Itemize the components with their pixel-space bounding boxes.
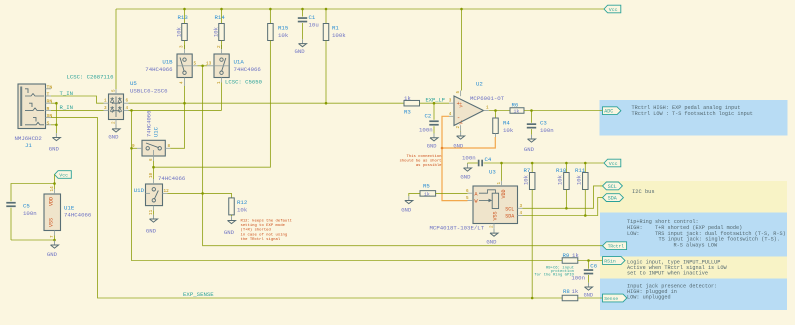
junction op-amp V+ xyxy=(460,8,463,11)
svg-text:10k: 10k xyxy=(503,127,514,134)
svg-text:GND: GND xyxy=(401,207,412,214)
wire T_IN xyxy=(51,96,104,103)
svg-text:1: 1 xyxy=(486,106,489,111)
svg-text:10k: 10k xyxy=(523,174,530,185)
svg-text:5: 5 xyxy=(194,62,197,67)
wire U1B pin4 down xyxy=(184,86,186,103)
svg-text:J1: J1 xyxy=(25,142,32,149)
wire R10 to SCL xyxy=(565,190,567,209)
power flag Vcc mid xyxy=(604,159,621,167)
junction C2 top xyxy=(433,102,436,105)
resistor R3 xyxy=(404,100,420,106)
op-amp U2 MCP6001-OT xyxy=(454,96,484,126)
svg-text:U2: U2 xyxy=(476,80,483,87)
U5 pin 1 xyxy=(104,102,109,104)
J1 pin SN xyxy=(46,117,52,119)
note box Sense (blue) xyxy=(600,279,787,311)
U2 pin 2 V- xyxy=(460,125,462,131)
flag Sense xyxy=(603,294,627,302)
svg-text:1k: 1k xyxy=(572,288,579,295)
svg-text:5: 5 xyxy=(112,89,117,92)
svg-text:Vcc: Vcc xyxy=(59,173,68,179)
capacitor C5 xyxy=(6,202,15,204)
svg-text:GND: GND xyxy=(47,251,58,258)
wire R_IN to U1A xyxy=(129,109,222,111)
wire control U1B5-U1A13 xyxy=(198,65,208,67)
svg-text:EXP_SENSE: EXP_SENSE xyxy=(183,291,214,298)
svg-text:3: 3 xyxy=(104,106,107,111)
svg-text:R11: R11 xyxy=(575,167,586,174)
svg-text:R1: R1 xyxy=(332,25,339,32)
wire V+ to rail xyxy=(461,9,463,91)
svg-text:TRctrl LOW : T-S footswitch lo: TRctrl LOW : T-S footswitch logic input xyxy=(632,111,753,117)
flag TRctrl xyxy=(603,242,627,250)
wire U1C6 to node xyxy=(153,161,155,167)
J1 pin T xyxy=(46,95,52,97)
U1D pin 11 xyxy=(153,206,155,211)
power flag Vcc U1E xyxy=(55,171,72,179)
junction R11 top xyxy=(584,162,587,165)
junction C6 xyxy=(587,259,590,262)
junction RN xyxy=(55,102,58,105)
resistor R9 xyxy=(562,258,578,264)
analog switch U1A 74HC4066 xyxy=(214,54,229,78)
capacitor C1 xyxy=(302,9,304,17)
wire opamp out xyxy=(489,110,510,112)
svg-text:6: 6 xyxy=(126,99,129,104)
wire control down to TRctrl xyxy=(203,66,603,246)
junction R7 Sense xyxy=(531,297,534,300)
svg-text:SCL: SCL xyxy=(608,184,617,190)
svg-text:3: 3 xyxy=(520,204,523,209)
svg-text:C3: C3 xyxy=(540,120,547,127)
resistor R4 xyxy=(495,111,497,119)
svg-text:VSS: VSS xyxy=(49,218,55,227)
svg-text:set to INPUT when inactive: set to INPUT when inactive xyxy=(627,271,708,277)
wire R9 to RSin flag xyxy=(578,260,603,262)
svg-text:2: 2 xyxy=(456,126,461,129)
svg-text:TN: TN xyxy=(47,84,53,90)
IC U5 USBLC6-2SC6 xyxy=(109,94,124,120)
U1C pin 9 xyxy=(137,147,142,149)
svg-text:10k: 10k xyxy=(576,174,583,185)
J1 pin R xyxy=(46,109,52,111)
svg-text:NMJ6HCD2: NMJ6HCD2 xyxy=(15,135,43,142)
U5 pin 3 xyxy=(104,109,109,111)
svg-text:1: 1 xyxy=(104,99,107,104)
U1B pin 4 xyxy=(184,78,186,87)
wire U1D12 to R12 xyxy=(168,193,232,198)
junction C3 top xyxy=(530,109,533,112)
resistor R1 xyxy=(325,9,327,24)
svg-text:R5: R5 xyxy=(423,182,430,189)
wire U5 VBUS to rail xyxy=(115,9,117,89)
capacitor C6 xyxy=(588,261,590,269)
svg-text:S: S xyxy=(47,120,50,126)
svg-text:1: 1 xyxy=(497,182,502,185)
svg-text:LCSC: C2687116: LCSC: C2687116 xyxy=(67,74,114,81)
ground U3 xyxy=(493,229,495,233)
svg-text:U5: U5 xyxy=(130,80,137,87)
J1 pin RN xyxy=(46,102,52,104)
svg-text:R15: R15 xyxy=(278,25,289,32)
U5 pin 4 xyxy=(124,109,129,111)
ground U1D xyxy=(153,211,155,215)
junction U1D pin12 xyxy=(201,192,204,195)
svg-text:4: 4 xyxy=(449,112,452,117)
junction feedback orange xyxy=(441,147,444,150)
svg-text:R: R xyxy=(47,106,50,112)
wire R11 to SDA xyxy=(584,190,586,216)
svg-text:R12: R12 xyxy=(237,199,248,206)
svg-text:RSin: RSin xyxy=(604,258,616,264)
svg-text:(T+R) shorted: (T+R) shorted xyxy=(241,228,271,233)
svg-text:2: 2 xyxy=(489,225,494,228)
svg-text:U1C: U1C xyxy=(153,126,160,137)
svg-text:U1D: U1D xyxy=(134,187,145,194)
svg-text:4: 4 xyxy=(520,211,523,216)
resistor R10 xyxy=(565,163,567,173)
svg-text:setting to EXP mode: setting to EXP mode xyxy=(241,223,286,228)
svg-text:MCP6001-OT: MCP6001-OT xyxy=(470,95,505,102)
svg-text:R_IN: R_IN xyxy=(60,104,73,111)
svg-text:R7: R7 xyxy=(524,167,531,174)
svg-text:10k: 10k xyxy=(176,26,183,37)
analog switch U1C 74HC4066 xyxy=(142,140,165,156)
ground U1E xyxy=(54,241,56,245)
svg-text:W: W xyxy=(475,199,478,205)
junction control node xyxy=(152,166,155,169)
svg-text:Vcc: Vcc xyxy=(609,161,618,167)
svg-text:R14: R14 xyxy=(215,14,226,21)
resistor R12 xyxy=(229,198,235,215)
svg-text:10k: 10k xyxy=(278,32,289,39)
U1C pin 6 xyxy=(153,156,155,161)
svg-text:VDD: VDD xyxy=(49,197,55,206)
junction R1 top xyxy=(325,8,328,11)
wire R13 to U1B xyxy=(184,45,186,49)
svg-text:1k: 1k xyxy=(572,252,579,259)
wire Vcc to U1E xyxy=(54,175,56,190)
resistor R11 xyxy=(584,163,586,173)
wire R5 left to GND xyxy=(409,193,420,196)
junction R10 top xyxy=(565,162,568,165)
svg-text:R-S always LOW: R-S always LOW xyxy=(674,242,718,248)
junction R10 SCL xyxy=(565,207,568,210)
svg-text:3: 3 xyxy=(179,45,184,48)
ground U2 xyxy=(460,130,462,133)
note box I2C (yellow) xyxy=(600,181,787,213)
svg-text:SDA: SDA xyxy=(608,196,617,202)
svg-text:1k: 1k xyxy=(514,109,520,115)
ground C1 xyxy=(302,39,304,43)
svg-text:5: 5 xyxy=(456,91,461,94)
resistor R14 xyxy=(221,9,223,24)
ground C3 xyxy=(531,135,533,139)
svg-text:VSS: VSS xyxy=(492,211,498,220)
ground jack xyxy=(55,133,57,137)
junction R14 top xyxy=(220,8,223,11)
connector J1 NMJ6HCD2 xyxy=(18,84,46,129)
wire SCL xyxy=(523,186,603,208)
svg-text:GND: GND xyxy=(427,143,437,149)
wire node to U1D10 xyxy=(153,167,155,179)
svg-text:6: 6 xyxy=(149,158,154,161)
flag ADC xyxy=(603,107,621,115)
junction R11 SDA xyxy=(584,214,587,217)
junction control xyxy=(201,65,204,68)
U2 pin 4 xyxy=(449,115,454,117)
junction R7 top xyxy=(531,162,534,165)
resistor R15 xyxy=(269,9,271,24)
svg-text:74HC4066: 74HC4066 xyxy=(234,66,262,73)
U3 pin 3 SCL xyxy=(518,207,523,209)
svg-text:10k: 10k xyxy=(237,206,248,213)
svg-text:74HC4066: 74HC4066 xyxy=(64,212,92,219)
svg-text:100n: 100n xyxy=(419,126,433,133)
svg-text:11: 11 xyxy=(149,209,154,215)
svg-text:74HC4066: 74HC4066 xyxy=(158,175,186,182)
junction U1C9 on RSin riser xyxy=(130,147,133,150)
power flag Vcc top right xyxy=(604,5,621,13)
U1A pin 2 xyxy=(221,45,223,54)
svg-text:R10: R10 xyxy=(556,167,567,174)
U3 pin 2 VSS xyxy=(493,224,495,229)
wire C5 bottom to U1E7 xyxy=(11,239,55,241)
ground C6 xyxy=(588,283,590,287)
junction S xyxy=(55,124,58,127)
wire U1C8 up to EXP xyxy=(170,103,184,148)
svg-text:R9: R9 xyxy=(563,252,570,259)
svg-text:10: 10 xyxy=(149,172,154,178)
svg-text:T: T xyxy=(47,92,50,98)
junction R1 bottom xyxy=(325,102,328,105)
svg-text:GND: GND xyxy=(146,228,157,235)
svg-text:GND: GND xyxy=(486,238,497,245)
wire C5 top xyxy=(11,184,55,202)
svg-text:VDD: VDD xyxy=(501,189,507,198)
svg-text:100n: 100n xyxy=(540,127,554,134)
analog switch U1B 74HC4066 xyxy=(177,54,192,78)
U3 pin 1 VDD xyxy=(501,181,503,186)
svg-text:C2: C2 xyxy=(425,113,432,120)
svg-text:10k: 10k xyxy=(557,174,564,185)
svg-text:SCL: SCL xyxy=(505,206,514,212)
svg-text:100n: 100n xyxy=(462,154,476,161)
svg-text:74HC4066: 74HC4066 xyxy=(145,111,152,137)
U1B pin 5 xyxy=(192,65,197,67)
analog switch U1E power unit xyxy=(44,194,61,231)
svg-text:TRctrl HIGH: EXP pedal analog: TRctrl HIGH: EXP pedal analog input xyxy=(632,105,741,111)
flag SDA xyxy=(603,194,624,202)
svg-text:as possible: as possible xyxy=(416,163,442,168)
svg-text:V+: V+ xyxy=(460,102,465,108)
svg-text:EXP_LP: EXP_LP xyxy=(426,97,445,103)
svg-text:14: 14 xyxy=(50,186,55,192)
svg-text:C1: C1 xyxy=(309,14,316,21)
svg-text:R12: keeps the default: R12: keeps the default xyxy=(241,219,292,224)
wire R6 to ADC xyxy=(524,110,603,112)
svg-text:MCP4018T-103E/LT: MCP4018T-103E/LT xyxy=(430,224,485,231)
note box ADC (blue) xyxy=(600,100,788,136)
note box TRctrl (blue) xyxy=(600,213,787,257)
U1E pin 14 xyxy=(54,189,56,194)
svg-text:7: 7 xyxy=(50,235,55,238)
junction R15 top xyxy=(269,8,272,11)
svg-text:74HC4066: 74HC4066 xyxy=(145,66,173,73)
svg-text:4: 4 xyxy=(179,81,184,84)
resistor R6 xyxy=(510,108,524,114)
wire Vcc mid rail xyxy=(483,162,604,164)
wire R7 to Sense net xyxy=(531,190,533,299)
svg-text:8: 8 xyxy=(168,144,171,149)
svg-text:1k: 1k xyxy=(404,95,411,102)
capacitor C3 xyxy=(531,111,533,123)
svg-text:ADC: ADC xyxy=(604,109,613,115)
svg-text:10u: 10u xyxy=(309,21,319,28)
U3 pin 4 SDA xyxy=(518,215,523,217)
svg-text:U1B: U1B xyxy=(162,59,173,66)
svg-text:2: 2 xyxy=(112,121,117,124)
resistor R5 xyxy=(420,191,436,197)
svg-text:SDA: SDA xyxy=(505,214,514,220)
svg-text:GND: GND xyxy=(108,134,119,141)
svg-text:U1E: U1E xyxy=(64,205,75,212)
svg-text:A: A xyxy=(475,191,478,197)
ground C4 xyxy=(467,162,469,165)
wire R14 to U1A xyxy=(221,45,223,49)
svg-text:R13: R13 xyxy=(178,14,189,21)
resistor R8 xyxy=(562,295,578,301)
junction U1E gnd xyxy=(53,239,56,242)
svg-text:USBLC6-2SC6: USBLC6-2SC6 xyxy=(130,88,168,95)
wire R_IN xyxy=(51,109,104,111)
wire SN to EXP_SENSE xyxy=(51,118,562,298)
svg-text:C4: C4 xyxy=(485,156,492,163)
wire VDD up xyxy=(501,163,503,181)
svg-text:I2C bus: I2C bus xyxy=(632,189,655,195)
wire U1C9 xyxy=(132,147,138,149)
svg-text:Sense: Sense xyxy=(604,296,618,302)
svg-text:V-: V- xyxy=(460,119,465,124)
svg-text:R4: R4 xyxy=(503,120,510,127)
svg-text:GND: GND xyxy=(524,146,535,153)
U5 pin 2 GND xyxy=(115,120,117,125)
ground U5 xyxy=(115,125,117,129)
U1D pin 12 xyxy=(163,192,168,194)
ground R5 xyxy=(408,196,410,200)
svg-text:U3: U3 xyxy=(489,169,496,176)
resistor R13 xyxy=(184,9,186,24)
wire SDA xyxy=(523,198,603,216)
junction U5 pin4 / RSin xyxy=(130,109,133,112)
svg-text:R6: R6 xyxy=(512,101,519,108)
junction R13 top xyxy=(183,8,186,11)
digipot U3 MCP4018T xyxy=(473,186,518,224)
wire R15 to U1C/U1D control node xyxy=(154,41,271,168)
note box RSin (yellow) xyxy=(600,257,787,279)
svg-text:GND: GND xyxy=(460,174,471,181)
svg-text:U1A: U1A xyxy=(234,59,245,66)
capacitor C2 xyxy=(433,103,435,120)
flag RSin xyxy=(603,257,626,265)
svg-text:1k: 1k xyxy=(424,192,430,198)
J1 pin TN xyxy=(46,88,52,90)
U5 pin 6 xyxy=(124,102,129,104)
wire RSin riser xyxy=(132,110,563,260)
junction C1 top xyxy=(301,8,304,11)
svg-text:R8: R8 xyxy=(563,288,570,295)
capacitor C4 xyxy=(478,160,480,167)
junction C5 top xyxy=(53,182,56,185)
U2 pin 1 xyxy=(484,110,489,112)
svg-text:the TRctrl signal: the TRctrl signal xyxy=(241,237,281,242)
wire feedback orange xyxy=(442,116,468,200)
svg-text:GND: GND xyxy=(295,48,306,55)
svg-text:T_IN: T_IN xyxy=(60,90,73,97)
wire Vcc top rail xyxy=(116,8,604,10)
svg-text:3: 3 xyxy=(449,99,452,104)
ground R12 xyxy=(231,216,233,220)
svg-text:10k: 10k xyxy=(213,26,220,37)
svg-text:Vcc: Vcc xyxy=(609,7,618,13)
flag SCL xyxy=(603,182,623,190)
junction U1B pin4 xyxy=(183,102,186,105)
wire RN to S xyxy=(51,102,56,104)
analog switch U1D 74HC4066 xyxy=(146,184,163,206)
svg-text:SN: SN xyxy=(47,113,53,119)
svg-text:for the Ring GPIO: for the Ring GPIO xyxy=(534,273,574,278)
svg-text:GND: GND xyxy=(224,229,235,236)
ground C2 xyxy=(433,133,435,137)
U2 pin 5 V+ xyxy=(460,91,462,97)
junction U3 VDD xyxy=(500,162,503,165)
svg-text:R3: R3 xyxy=(404,108,411,115)
U3 pin 5 W xyxy=(468,199,474,201)
svg-text:LCSC: C5650: LCSC: C5650 xyxy=(225,79,263,86)
wire R5 to U3 A xyxy=(436,192,468,194)
svg-text:GND: GND xyxy=(584,292,593,298)
svg-text:4: 4 xyxy=(126,106,129,111)
U3 pin 6 A xyxy=(468,192,474,194)
U1C pin 8 xyxy=(165,147,170,149)
svg-text:This connection: This connection xyxy=(406,154,441,159)
resistor R7 xyxy=(531,163,533,173)
svg-text:1: 1 xyxy=(217,81,222,84)
svg-text:C6: C6 xyxy=(590,263,597,270)
svg-text:C5: C5 xyxy=(23,203,30,210)
junction R4 top xyxy=(494,109,497,112)
wire R8 to Sense flag xyxy=(578,297,603,299)
U1B pin 3 xyxy=(184,45,186,54)
U1D pin 10 xyxy=(153,179,155,184)
svg-text:RN: RN xyxy=(47,99,53,105)
svg-text:should be as short: should be as short xyxy=(399,159,441,164)
svg-text:GND: GND xyxy=(49,146,60,153)
J1 pin S xyxy=(46,124,52,126)
svg-text:100k: 100k xyxy=(332,32,346,39)
svg-text:LOW: unplugged: LOW: unplugged xyxy=(627,294,671,300)
U1A pin 1 xyxy=(221,78,223,83)
wire EXP net xyxy=(129,102,405,104)
svg-text:100n: 100n xyxy=(23,210,37,217)
svg-text:TRctrl: TRctrl xyxy=(608,244,625,250)
svg-text:in case of not using: in case of not using xyxy=(241,232,288,237)
svg-text:5: 5 xyxy=(466,196,469,201)
U5 pin 5 VBUS xyxy=(115,89,117,94)
U1A pin 13 xyxy=(207,65,214,67)
U1E pin 7 xyxy=(54,231,56,236)
